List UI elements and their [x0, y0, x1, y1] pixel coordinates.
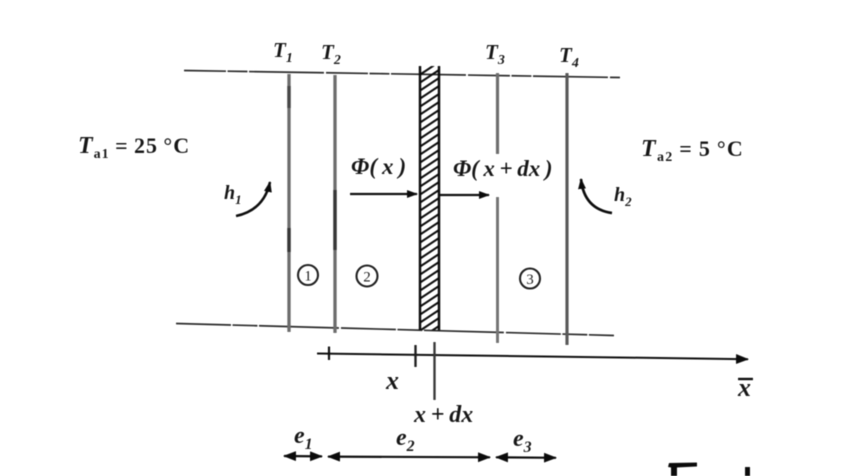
wall interface line T3	[496, 73, 499, 343]
convection coefficient label h1	[224, 182, 242, 207]
x axis arrow	[317, 354, 748, 360]
cropped caption fragment Figure	[668, 463, 750, 476]
heat flux label phi(x+dx)	[453, 156, 553, 181]
convection coefficient label h2	[614, 184, 632, 209]
axis origin tick	[328, 347, 330, 361]
thickness label e2	[396, 425, 415, 455]
wall interface line T2	[333, 75, 336, 333]
wall interface line T4	[565, 73, 568, 345]
svg-text:x: x	[385, 366, 399, 395]
svg-text:1: 1	[304, 269, 312, 285]
top wall boundary line	[184, 71, 620, 78]
temperature label T3	[485, 40, 505, 68]
temperature label T1	[273, 38, 293, 66]
abscissa label x	[385, 366, 399, 395]
layer number 2 circled	[357, 266, 378, 287]
svg-text:x: x	[737, 373, 751, 402]
vertical reference line at x+dx	[433, 342, 435, 400]
ambient temperature label Ta1 = 25 C	[78, 133, 190, 162]
thickness label e1	[294, 423, 313, 453]
svg-text:Ta2 = 5 °C: Ta2 = 5 °C	[641, 136, 744, 165]
svg-text:Φ( x + dx ): Φ( x + dx )	[453, 156, 553, 181]
heat flux label phi(x)	[351, 154, 406, 179]
wall interface line T1	[287, 74, 290, 332]
hatched slice diagonal hatching	[415, 58, 445, 342]
thickness dimension arrow e1	[284, 455, 322, 458]
bottom wall boundary line	[176, 324, 614, 336]
thickness label e3	[513, 426, 532, 456]
heat flux arrow phi(x+dx)	[440, 194, 489, 196]
hatched slice left border	[419, 66, 422, 330]
temperature label T2	[321, 40, 341, 68]
svg-text:3: 3	[526, 272, 534, 288]
layer number 1 circled	[298, 265, 318, 285]
svg-text:Φ( x ): Φ( x )	[351, 154, 406, 179]
axis name label x bar	[737, 373, 753, 402]
convection arrow h1	[236, 182, 270, 216]
axis tick at x	[414, 345, 416, 367]
temperature label T4	[559, 43, 579, 71]
convection arrow h2	[581, 179, 612, 213]
abscissa label x+dx	[413, 402, 473, 428]
ambient temperature label Ta2 = 5 C	[641, 136, 744, 165]
thickness dimension arrow e2	[328, 456, 490, 459]
thickness dimension arrow e3	[496, 456, 556, 459]
svg-text:x + dx: x + dx	[413, 402, 473, 428]
svg-text:2: 2	[363, 270, 371, 286]
hatched slice right border	[438, 66, 441, 330]
heat flux arrow phi(x)	[350, 193, 417, 195]
layer number 3 circled	[520, 269, 540, 289]
